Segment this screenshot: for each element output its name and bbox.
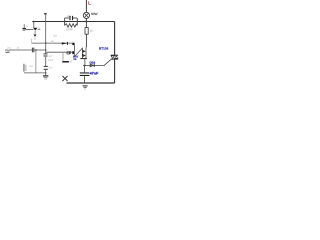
svg-text:G: G: [38, 27, 40, 30]
wire vertical mid-left: [35, 50, 37, 73]
junction dot R1C1 right: [77, 21, 79, 23]
wire bottom rail: [67, 82, 115, 84]
junction dot lamp/rail: [86, 21, 88, 23]
wire gate diagonal to diac: [75, 48, 83, 56]
wire top rail: [32, 21, 114, 23]
svg-text:BT136: BT136: [99, 47, 109, 51]
thyristor D1 triangle: [33, 28, 37, 31]
junction dot PM wire mid: [35, 49, 36, 50]
wire C6 to D1: [26, 29, 34, 31]
label next to vertical: [29, 65, 33, 68]
svg-text:47nF: 47nF: [90, 71, 99, 75]
svg-text:100V: 100V: [48, 59, 54, 62]
capacitor C1 stub right: [76, 18, 78, 25]
capacitor C1 plates: [69, 16, 73, 20]
junction blob wire1 right: [72, 43, 74, 45]
svg-text:10n: 10n: [48, 67, 53, 70]
triac Q1 BT136: [111, 55, 118, 60]
label right of bar: [69, 61, 72, 64]
wire right column lower (node MT1): [114, 59, 116, 83]
capacitor C2 plates: [44, 53, 48, 56]
capacitor C3 plates: [44, 66, 48, 70]
wire horizontal y73: [24, 72, 46, 74]
node X arrow at bottom rail left end: [62, 76, 67, 81]
label floating mid: [53, 34, 57, 37]
label 47nF blue: [90, 71, 99, 75]
svg-text:55: 55: [73, 58, 76, 61]
svg-text:Tr: Tr: [66, 49, 68, 52]
terminal T1 tick: [44, 13, 47, 14]
wire gate diagonal to triac: [104, 59, 111, 65]
wire PM left segment: [9, 49, 32, 51]
svg-text:1M: 1M: [53, 34, 57, 37]
node PM label: [5, 49, 10, 53]
capacitor C4 plates: [32, 48, 34, 53]
junction dot PM wire column: [45, 49, 46, 50]
svg-text:1M: 1M: [29, 65, 33, 68]
junction dot R1C1 left: [64, 21, 66, 23]
svg-text:4n7: 4n7: [48, 55, 53, 58]
wire C3 to ground: [45, 70, 47, 76]
wire D1 stub down: [34, 31, 36, 35]
junction dot gate node: [84, 65, 85, 66]
capacitor C3 label: [48, 67, 53, 70]
wire lamp lead top (net L): [85, 0, 87, 12]
junction blob wire2 right: [72, 51, 74, 54]
label BT136 blue: [99, 47, 109, 51]
capacitor C5 vertical plates: [24, 64, 27, 72]
label R value 2n2: [7, 46, 12, 49]
capacitor C1 stub left: [64, 18, 66, 25]
svg-text:470R: 470R: [66, 27, 73, 31]
lamp value 60W: [91, 12, 98, 16]
resistor R2 label: [90, 29, 93, 32]
diac D4: [80, 47, 87, 59]
junction dot wire1 left column: [45, 42, 46, 43]
ground GND1: [43, 75, 48, 79]
wire D1 right lead: [37, 28, 40, 30]
capacitor C2 label: [48, 55, 54, 62]
svg-text:4x: 4x: [51, 40, 54, 43]
resistor R1 value 470R: [66, 27, 73, 31]
junction dot y73 wire column: [45, 72, 46, 73]
resistor R1 zigzag: [65, 24, 78, 27]
wire T1 stub: [45, 15, 47, 22]
svg-text:1n: 1n: [26, 25, 29, 28]
svg-text:1k: 1k: [17, 47, 20, 50]
wire right column upper (node MT2): [114, 22, 116, 55]
wire lamp bottom to rail: [85, 19, 87, 22]
capacitor C7 47nF: [80, 66, 90, 84]
wire2 horizontal: [46, 51, 75, 53]
arrowhead below D1: [33, 35, 36, 37]
wire cap drop from wire2: [62, 52, 64, 61]
label above wire2: [66, 49, 68, 52]
diode D5 on gate wire: [90, 64, 95, 67]
diode D3 on wire2 open: [67, 51, 71, 54]
label above wire1: [51, 40, 54, 43]
wire diac to gate node: [84, 59, 86, 65]
svg-text:22n: 22n: [67, 15, 72, 18]
label right of D1: [38, 27, 40, 30]
wire mid column: [73, 43, 75, 57]
label R value 1k: [17, 47, 20, 50]
diode D2 on wire1: [62, 42, 68, 45]
lamp LA1: [83, 12, 89, 18]
capacitor C6 lead: [23, 24, 25, 28]
svg-text:2n2: 2n2: [7, 46, 12, 49]
plate bar below: [62, 61, 69, 63]
svg-text:L: L: [88, 0, 91, 5]
capacitor C6 plate top: [23, 28, 26, 31]
ground GND2: [83, 85, 88, 89]
capacitor C1 value 22n: [67, 15, 72, 18]
label tiny near C6: [26, 25, 29, 28]
capacitor C1 leads: [65, 17, 78, 19]
svg-text:DB3: DB3: [90, 61, 96, 65]
label D5 blue: [90, 61, 96, 65]
node L label: [88, 0, 91, 5]
wire gate horizontal: [83, 65, 104, 67]
label U1 blue two lines: [73, 55, 79, 61]
wire PM right segment: [34, 49, 45, 51]
svg-text:1k: 1k: [90, 29, 93, 32]
wire drop from top rail: [33, 22, 35, 28]
svg-text:60W: 60W: [91, 12, 98, 16]
wire1 horizontal: [32, 42, 75, 44]
svg-text:10: 10: [69, 61, 72, 64]
resistor R2 box: [85, 22, 88, 48]
wire between C2 C3: [45, 57, 47, 66]
junction dot top rail left: [33, 21, 35, 23]
faint wire to wire1: [32, 37, 35, 43]
wire left column: [45, 22, 47, 54]
